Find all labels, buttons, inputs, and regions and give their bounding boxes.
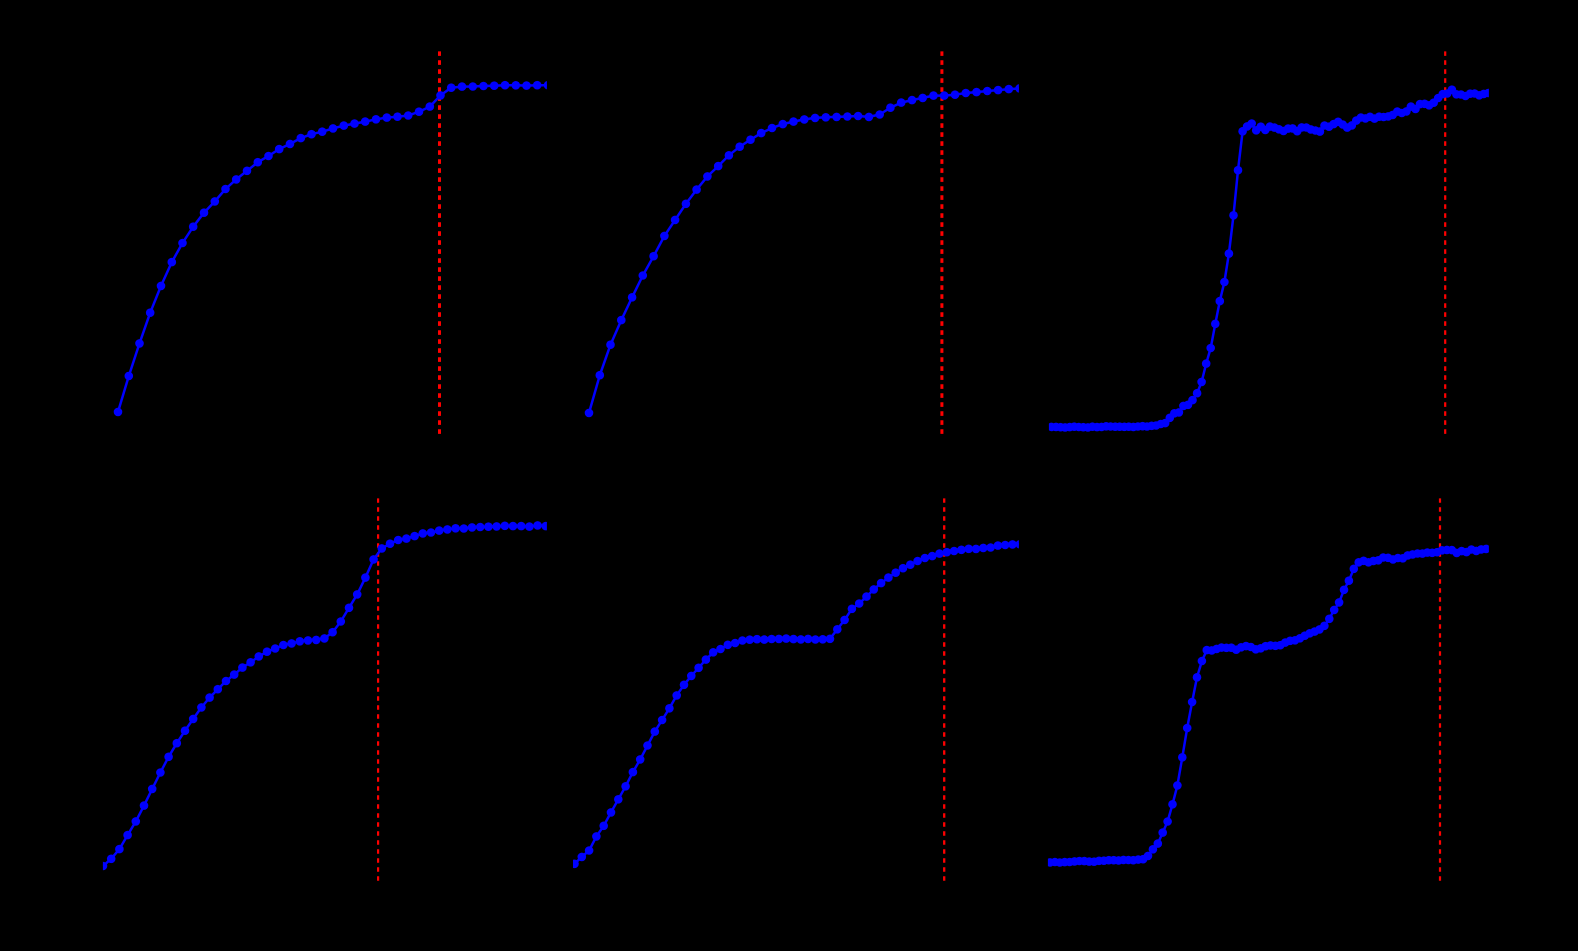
subplot p4 [99,498,550,881]
subplot p6 [1046,498,1491,881]
subplot p1 [114,51,553,434]
subplot p5 [570,498,1024,881]
subplot p3 [1047,51,1492,434]
subplot p2 [585,51,1024,434]
